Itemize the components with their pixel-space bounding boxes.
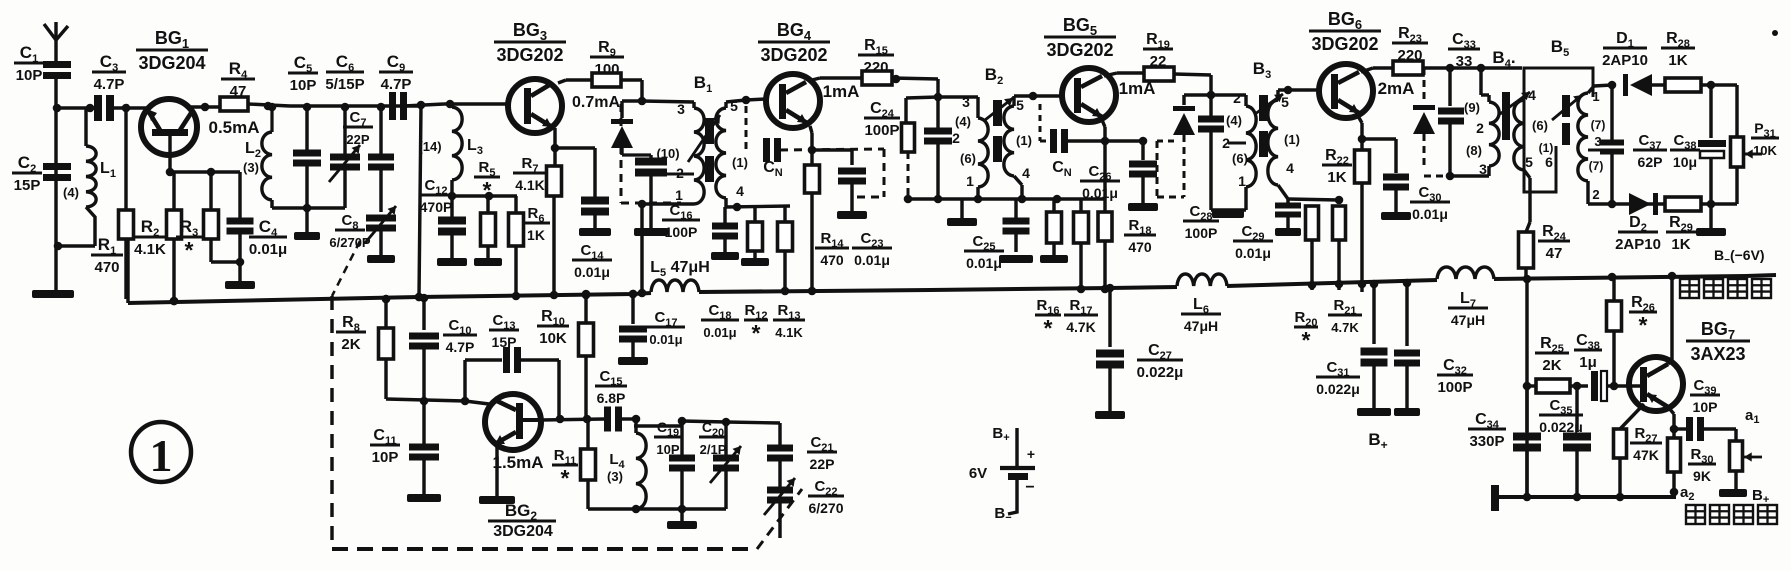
svg-text:100P: 100P: [1437, 379, 1472, 396]
svg-text:(1): (1): [1016, 133, 1032, 148]
svg-text:0.01μ: 0.01μ: [966, 255, 1002, 271]
svg-text:33: 33: [1456, 53, 1473, 70]
svg-text:5: 5: [730, 98, 738, 114]
svg-text:0.022μ: 0.022μ: [1137, 364, 1184, 381]
svg-text:0.7mA: 0.7mA: [572, 94, 620, 111]
svg-text:1: 1: [675, 187, 683, 203]
svg-text:*: *: [1302, 327, 1311, 353]
svg-text:(1): (1): [732, 155, 748, 170]
svg-text:5: 5: [1016, 97, 1024, 113]
svg-text:2: 2: [952, 130, 960, 146]
svg-text:100P: 100P: [665, 224, 698, 240]
svg-text:2AP10: 2AP10: [1615, 236, 1661, 253]
svg-text:*: *: [185, 237, 194, 263]
svg-text:1K: 1K: [527, 227, 545, 243]
svg-text:(9): (9): [1464, 100, 1480, 115]
svg-text:4.1K: 4.1K: [775, 325, 803, 340]
svg-text:(4): (4): [955, 114, 971, 129]
svg-text:1: 1: [966, 173, 974, 189]
svg-text:(10): (10): [656, 146, 679, 161]
svg-text:(4): (4): [63, 185, 79, 200]
svg-text:470: 470: [820, 252, 844, 268]
svg-text:100P: 100P: [864, 122, 899, 139]
svg-text:1K: 1K: [1668, 52, 1687, 69]
svg-text:(6): (6): [1232, 151, 1248, 166]
svg-text:(6): (6): [1532, 118, 1548, 133]
svg-text:10P: 10P: [372, 449, 399, 466]
svg-text:15P: 15P: [14, 177, 41, 194]
svg-text:3: 3: [962, 94, 970, 110]
svg-text:0.01μ: 0.01μ: [249, 241, 287, 258]
svg-text:0.022μ: 0.022μ: [1539, 419, 1583, 435]
svg-text:0.01μ: 0.01μ: [1235, 245, 1271, 261]
svg-text:6/270: 6/270: [808, 500, 843, 516]
svg-text:(6): (6): [960, 151, 976, 166]
svg-text:0.01μ: 0.01μ: [649, 332, 682, 347]
svg-text:0.022μ: 0.022μ: [1316, 381, 1360, 397]
svg-text:(7): (7): [1591, 118, 1606, 132]
svg-text:4.1K: 4.1K: [515, 177, 545, 193]
svg-text:47μH: 47μH: [1184, 318, 1218, 334]
svg-text:10P: 10P: [290, 77, 317, 94]
svg-text:*: *: [1044, 315, 1053, 341]
svg-text:3: 3: [1479, 161, 1487, 177]
svg-text:470: 470: [1128, 239, 1152, 255]
svg-text:*: *: [752, 320, 761, 346]
svg-text:B4.: B4.: [1492, 48, 1515, 70]
svg-text:6V: 6V: [969, 465, 987, 482]
svg-text:1K: 1K: [1327, 169, 1346, 186]
svg-text:2K: 2K: [1542, 357, 1561, 374]
svg-text:470: 470: [94, 259, 119, 276]
svg-text:(1): (1): [1539, 141, 1554, 155]
svg-text:1μ: 1μ: [1579, 354, 1597, 371]
svg-text:1: 1: [1238, 173, 1246, 189]
svg-text:2K: 2K: [341, 336, 360, 353]
svg-text:470P: 470P: [420, 199, 453, 215]
svg-text:0.01μ: 0.01μ: [574, 264, 610, 280]
svg-text:4.1K: 4.1K: [134, 241, 166, 258]
svg-text:3DG202: 3DG202: [1311, 34, 1378, 54]
svg-text:47: 47: [1546, 245, 1563, 262]
svg-text:5: 5: [1281, 94, 1289, 110]
svg-text:47K: 47K: [1633, 447, 1659, 463]
svg-text:10P: 10P: [656, 442, 679, 457]
svg-text:22P: 22P: [810, 456, 835, 472]
svg-text:9K: 9K: [1693, 468, 1711, 484]
svg-text:2AP10: 2AP10: [1602, 52, 1648, 69]
svg-text:62P: 62P: [1638, 154, 1663, 170]
svg-text:4: 4: [1022, 165, 1030, 181]
svg-text:3DG202: 3DG202: [1046, 40, 1113, 60]
svg-text:10P: 10P: [1693, 399, 1718, 415]
svg-text:(7): (7): [1589, 159, 1604, 173]
svg-text:(8): (8): [1466, 143, 1482, 158]
svg-text:1: 1: [150, 430, 173, 481]
svg-text:*: *: [1639, 312, 1648, 338]
svg-text:330P: 330P: [1469, 433, 1504, 450]
svg-text:1.5mA: 1.5mA: [492, 453, 543, 472]
svg-text:10P: 10P: [16, 67, 43, 84]
svg-text:4.7K: 4.7K: [1331, 320, 1359, 335]
svg-text:100P: 100P: [1185, 225, 1218, 241]
svg-text:4.7K: 4.7K: [1066, 319, 1096, 335]
svg-text:3DG204: 3DG204: [138, 53, 205, 73]
svg-text:2: 2: [1476, 120, 1484, 136]
svg-text:(3): (3): [607, 469, 623, 484]
svg-text:6: 6: [1545, 154, 1553, 170]
svg-text:1: 1: [1592, 89, 1599, 104]
svg-text:22P: 22P: [346, 132, 369, 147]
svg-text:+: +: [1027, 446, 1035, 462]
svg-text:3: 3: [677, 101, 685, 117]
svg-text:4.7P: 4.7P: [446, 339, 475, 355]
svg-text:2mA: 2mA: [1378, 79, 1415, 98]
svg-text:3AX23: 3AX23: [1690, 344, 1745, 364]
svg-text:4: 4: [1528, 87, 1536, 103]
svg-text:−: −: [1025, 479, 1034, 496]
svg-text:5/15P: 5/15P: [325, 76, 364, 93]
svg-text:47μH: 47μH: [1451, 312, 1485, 328]
svg-text:0.01μ: 0.01μ: [1082, 185, 1118, 201]
svg-text:3DG204: 3DG204: [493, 523, 553, 540]
svg-text:2: 2: [1233, 90, 1241, 106]
svg-text:4.7P: 4.7P: [381, 76, 412, 93]
svg-text:5: 5: [1525, 154, 1533, 170]
svg-text:0.01μ: 0.01μ: [1412, 206, 1448, 222]
svg-text:1mA: 1mA: [823, 82, 860, 101]
svg-text:2: 2: [1592, 187, 1599, 202]
svg-text:0.01μ: 0.01μ: [703, 325, 736, 340]
svg-text:(4): (4): [1226, 113, 1242, 128]
svg-text:4: 4: [1286, 160, 1294, 176]
svg-text:2/1P: 2/1P: [700, 442, 727, 457]
svg-text:*: *: [483, 177, 492, 203]
svg-text:(3): (3): [243, 160, 259, 175]
svg-text:6.8P: 6.8P: [597, 390, 626, 406]
svg-text:*: *: [561, 465, 570, 491]
svg-text:3DG202: 3DG202: [760, 45, 827, 65]
svg-text:10μ: 10μ: [1673, 154, 1697, 170]
svg-text:(14): (14): [418, 139, 441, 154]
svg-text:3DG202: 3DG202: [496, 45, 563, 65]
svg-text:1K: 1K: [1671, 236, 1690, 253]
svg-text:10K: 10K: [539, 330, 567, 347]
svg-text:0.01μ: 0.01μ: [854, 252, 890, 268]
svg-text:10K: 10K: [1753, 143, 1777, 158]
svg-text:6/270P: 6/270P: [329, 235, 371, 250]
svg-text:0.5mA: 0.5mA: [208, 118, 259, 137]
svg-text:4.7P: 4.7P: [94, 76, 125, 93]
svg-text:15P: 15P: [492, 334, 517, 350]
svg-text:(1): (1): [1284, 132, 1300, 147]
svg-text:4: 4: [736, 183, 744, 199]
